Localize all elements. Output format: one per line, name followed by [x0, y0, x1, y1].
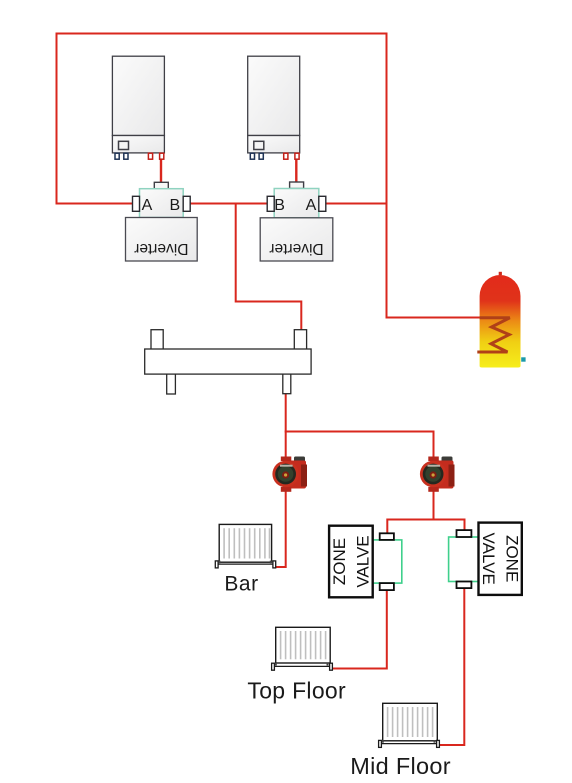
cylinder top stub	[499, 272, 502, 275]
boiler B2 flow stub 2	[295, 153, 299, 159]
cylinder heating coil	[477, 318, 510, 352]
pump P2	[420, 457, 455, 492]
svg-text:A: A	[142, 197, 153, 214]
diverter DV2 label box	[260, 218, 333, 261]
radiator Bar	[215, 524, 275, 568]
zone valve V2 top port	[457, 530, 472, 537]
diverter DV1 label box	[126, 218, 198, 262]
svg-text:Diverter: Diverter	[134, 240, 188, 257]
boiler B1 flow stub 2	[160, 153, 164, 159]
boiler B1 return stub 1	[115, 153, 119, 159]
boiler B1 return stub 2	[124, 153, 128, 159]
low loss header body	[145, 349, 311, 374]
zone valve V2 label box	[479, 523, 522, 595]
boiler B2 flow stub 1	[284, 153, 288, 159]
radiator Mid Floor	[379, 703, 440, 747]
zone valve V2 bottom port	[457, 582, 472, 589]
wire: split to zone valves	[387, 520, 464, 534]
wire: right rail to cylinder coil	[386, 317, 482, 319]
low loss header bottom-left stub	[167, 374, 176, 395]
svg-text:Diverter: Diverter	[269, 240, 323, 257]
zone valve V1 top port	[380, 533, 394, 540]
hot water cylinder	[480, 275, 521, 368]
wire: zone valve V1 to Top Floor radiator	[333, 589, 387, 669]
wire: left rail vertical	[56, 33, 58, 205]
wire: boiler2 to diverter2 top port	[295, 159, 297, 183]
diverter valve DV2 port A stub	[319, 196, 326, 211]
zone valve V1 body	[373, 540, 402, 583]
boiler B1	[112, 56, 164, 153]
zone valve V1 label box	[329, 526, 373, 598]
low loss header top-right stub	[294, 330, 306, 350]
svg-text:Top Floor: Top Floor	[247, 677, 346, 703]
svg-text:A: A	[306, 197, 317, 214]
wire: branch to pump P2	[285, 432, 434, 519]
boiler B1 control panel	[119, 141, 129, 149]
radiator Top Floor	[272, 627, 333, 670]
diverter valve DV1 top port	[154, 182, 168, 188]
svg-text:B: B	[274, 197, 285, 214]
diverter valve DV1 body	[140, 189, 184, 218]
wire: right rail vertical	[386, 33, 388, 319]
boiler B2 return stub 1	[250, 153, 254, 159]
boiler B2 return stub 2	[259, 153, 263, 159]
wire: top loop horizontal	[57, 33, 387, 35]
zone valve V2 body	[449, 537, 479, 582]
zone valve V1 bottom port	[380, 583, 394, 590]
cylinder thermostat pocket	[521, 357, 525, 361]
pump P1	[272, 457, 307, 492]
low loss header top-left stub	[151, 330, 163, 350]
diverter valve DV2 port B stub	[267, 196, 274, 211]
wire: boiler1 to diverter1 top port	[160, 159, 162, 183]
wire: junction drop to header	[236, 204, 302, 332]
boiler B2	[248, 56, 300, 153]
diverter valve DV2 body	[274, 189, 319, 218]
wire: zone valve V2 to Mid Floor radiator	[440, 588, 464, 746]
diverter valve DV1 port A stub	[133, 196, 140, 211]
svg-text:Bar: Bar	[224, 572, 258, 595]
wire: diverter1 port B to diverter2 port B	[190, 203, 268, 205]
wire: diverter2 port A to right rail	[326, 203, 387, 205]
svg-text:Mid Floor: Mid Floor	[350, 753, 451, 779]
wire: header outlet down past pump P1 to Bar radiator	[275, 394, 286, 567]
boiler B2 control panel	[254, 141, 264, 149]
low loss header bottom-right stub	[283, 374, 291, 394]
boiler B1 flow stub 1	[148, 153, 152, 159]
wire: left rail to diverter1 port A	[56, 203, 133, 205]
diverter valve DV2 top port	[290, 182, 304, 189]
diverter valve DV1 port B stub	[183, 196, 190, 211]
svg-text:B: B	[169, 197, 180, 214]
